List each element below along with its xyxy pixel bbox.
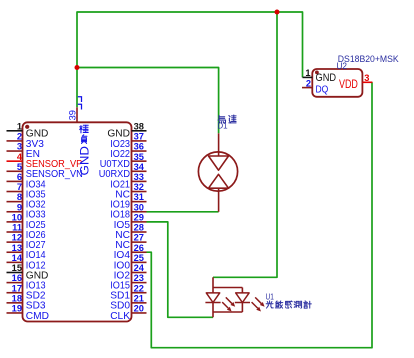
svg-text:GND: GND <box>79 146 91 176</box>
svg-text:3: 3 <box>17 142 22 152</box>
svg-text:34: 34 <box>134 162 145 172</box>
ESP32 pin 14 (IO12) <box>7 253 46 271</box>
svg-text:2: 2 <box>17 132 22 142</box>
junction dot on top rail <box>275 10 280 15</box>
ESP32 pin 8 (IO32) <box>7 192 46 210</box>
U1 right diode arrows <box>252 297 265 311</box>
ESP32 pin 4 (SENSOR_VP) <box>7 152 83 170</box>
DS18B20 pin 2 stub <box>302 78 312 88</box>
svg-text:15: 15 <box>12 263 22 273</box>
DS18B20 pin 3 stub <box>362 73 372 83</box>
svg-text:16: 16 <box>12 273 22 283</box>
net label 1 on pin39 wire (lower) <box>78 104 82 109</box>
ESP32 pin 9 (IO33) <box>7 202 46 220</box>
DS18B20 pin 1 stub <box>303 68 313 78</box>
ESP32 pin 1 (GND) <box>7 121 49 139</box>
wire IO5 to U1 bottom <box>147 222 214 317</box>
ESP32 pin 36 (IO22) <box>110 142 146 160</box>
svg-text:29: 29 <box>134 212 144 222</box>
motor D1 bottom triangle <box>209 174 229 188</box>
wire motor D1 bottom to IO18 <box>147 211 219 213</box>
svg-text:8: 8 <box>17 192 22 202</box>
svg-text:U1: U1 <box>266 291 275 301</box>
wire IO4 to DS18B20 VDD <box>147 82 373 347</box>
svg-text:39: 39 <box>67 110 77 120</box>
ESP32 pin 24 (IO2) <box>114 263 147 281</box>
wire branch down to photodetector U1 top <box>213 12 277 277</box>
ESP32 pin 23 (IO15) <box>110 273 146 291</box>
svg-text:32: 32 <box>134 182 144 192</box>
ESP32 pin 37 (IO23) <box>110 132 146 150</box>
svg-text:22: 22 <box>134 283 144 293</box>
svg-text:2: 2 <box>306 78 311 88</box>
svg-text:28: 28 <box>134 223 144 233</box>
svg-text:18: 18 <box>12 293 22 303</box>
ESP32 pin 19 (CMD) <box>7 304 50 322</box>
svg-text:9: 9 <box>17 202 22 212</box>
DS18B20 pin 1 dot <box>315 71 319 75</box>
svg-text:14: 14 <box>12 253 23 263</box>
ESP32 pin 2 (3V3) <box>7 132 45 150</box>
svg-text:5: 5 <box>17 162 22 172</box>
svg-text:31: 31 <box>134 192 144 202</box>
DS18B20 DQ label <box>316 84 329 95</box>
svg-text:VDD: VDD <box>339 77 358 91</box>
svg-text:13: 13 <box>12 243 22 253</box>
ESP32 pin 39 stub <box>76 107 78 122</box>
svg-text:21: 21 <box>134 293 144 303</box>
U1 refdes <box>266 291 275 301</box>
ESP32 pin 1 indicator dot <box>25 125 29 129</box>
svg-text:27: 27 <box>134 233 144 243</box>
ESP32 pin 26 (IO4) <box>114 243 147 261</box>
svg-text:3: 3 <box>364 73 369 83</box>
svg-text:36: 36 <box>134 142 144 152</box>
ESP32 pin 5 (SENSOR_VN) <box>7 162 83 180</box>
U1 name label photodetector CJK <box>266 301 311 308</box>
ESP32 pin 12 (IO27) <box>7 233 46 251</box>
motor D1 body circle <box>198 152 237 191</box>
svg-text:1: 1 <box>17 121 22 131</box>
ESP32 pin 31 (IO19) <box>110 192 146 210</box>
U1 left diode arrows <box>222 297 235 311</box>
svg-text:GND: GND <box>316 72 337 84</box>
svg-text:17: 17 <box>12 283 22 293</box>
ESP32 pin 13 (IO14) <box>7 243 46 261</box>
svg-text:7: 7 <box>17 182 22 192</box>
wire branch to motor D1 top <box>77 68 219 134</box>
ESP32 pin 29 (IO5) <box>114 212 147 230</box>
svg-text:30: 30 <box>134 202 144 212</box>
ESP32 pin 25 (IO0) <box>114 253 147 271</box>
motor D1 pin 1 stub top <box>218 133 220 156</box>
ESP32 pin 33 (IO21) <box>110 172 146 190</box>
svg-text:19: 19 <box>12 304 22 314</box>
motor D1 refdes <box>217 122 228 131</box>
svg-text:CMD: CMD <box>26 310 50 322</box>
ESP32 module body <box>23 122 132 321</box>
ESP32 pin 32 (NC) <box>115 182 146 200</box>
svg-text:38: 38 <box>134 121 144 131</box>
ESP32 pin 20 (CLK) <box>110 304 146 322</box>
svg-text:4: 4 <box>17 152 23 162</box>
ESP32 pin 16 (IO13) <box>7 273 46 291</box>
DS18B20 VDD label <box>339 77 358 91</box>
wire net GND pin39 riser and top rail <box>77 12 303 107</box>
DS18B20 part number label <box>338 54 399 64</box>
svg-text:25: 25 <box>134 253 144 263</box>
svg-text:37: 37 <box>134 132 144 142</box>
ESP32 pin 15 (GND) <box>7 263 49 281</box>
ESP32 pin 10 (IO25) <box>7 212 46 230</box>
photodetector U1 frame <box>213 277 242 317</box>
ESP32 pin 34 (U0RXD) <box>99 162 147 180</box>
svg-text:23: 23 <box>134 273 144 283</box>
svg-text:33: 33 <box>134 172 144 182</box>
ESP32 pin 22 (SD1) <box>110 283 146 301</box>
motor D1 name label CJK <box>218 115 236 123</box>
U1 left photodiode <box>205 293 220 303</box>
svg-text:12: 12 <box>12 233 22 243</box>
svg-text:6: 6 <box>17 172 22 182</box>
svg-text:24: 24 <box>134 263 145 273</box>
ESP32 pin 3 (EN) <box>7 142 40 160</box>
ESP32 pin 17 (SD2) <box>7 283 46 301</box>
svg-text:DQ: DQ <box>316 84 329 95</box>
ESP32 pin 18 (SD3) <box>7 293 46 311</box>
DS18B20 GND label <box>316 72 337 84</box>
ESP32 pin 38 (GND) <box>107 121 146 139</box>
svg-text:10: 10 <box>12 212 22 222</box>
ESP32 pin 30 (IO18) <box>110 202 146 220</box>
motor D1 top triangle <box>209 156 229 170</box>
ESP32 pin 11 (IO26) <box>7 223 46 241</box>
U1 right photodiode <box>235 293 250 303</box>
svg-text:CLK: CLK <box>110 310 130 322</box>
motor D1 pin 2 stub bottom <box>218 188 220 212</box>
ESP32 pin 21 (SD0) <box>110 293 146 311</box>
svg-text:1: 1 <box>305 68 310 78</box>
svg-text:20: 20 <box>134 304 144 314</box>
svg-text:U2: U2 <box>337 61 348 71</box>
ESP32 pin 7 (IO35) <box>7 182 46 200</box>
ESP32 pin 27 (NC) <box>115 233 146 251</box>
ESP32 pin 35 (U0TXD) <box>100 152 147 170</box>
ESP32 pin 28 (NC) <box>115 223 146 241</box>
DS18B20 refdes U2 <box>337 61 348 71</box>
DS18B20 U2 body <box>312 69 362 97</box>
ESP32 pin 6 (IO34) <box>7 172 46 190</box>
svg-text:11: 11 <box>12 223 22 233</box>
ESP32 pin 39 number <box>67 110 77 120</box>
junction dot on pin39 riser <box>75 65 80 70</box>
net label 1 on pin39 wire (upper) <box>78 97 82 102</box>
svg-text:35: 35 <box>134 152 144 162</box>
svg-text:26: 26 <box>134 243 144 253</box>
ESP32 pin 39 name GND neg-electrode <box>79 125 91 175</box>
svg-text:D1: D1 <box>217 122 228 131</box>
